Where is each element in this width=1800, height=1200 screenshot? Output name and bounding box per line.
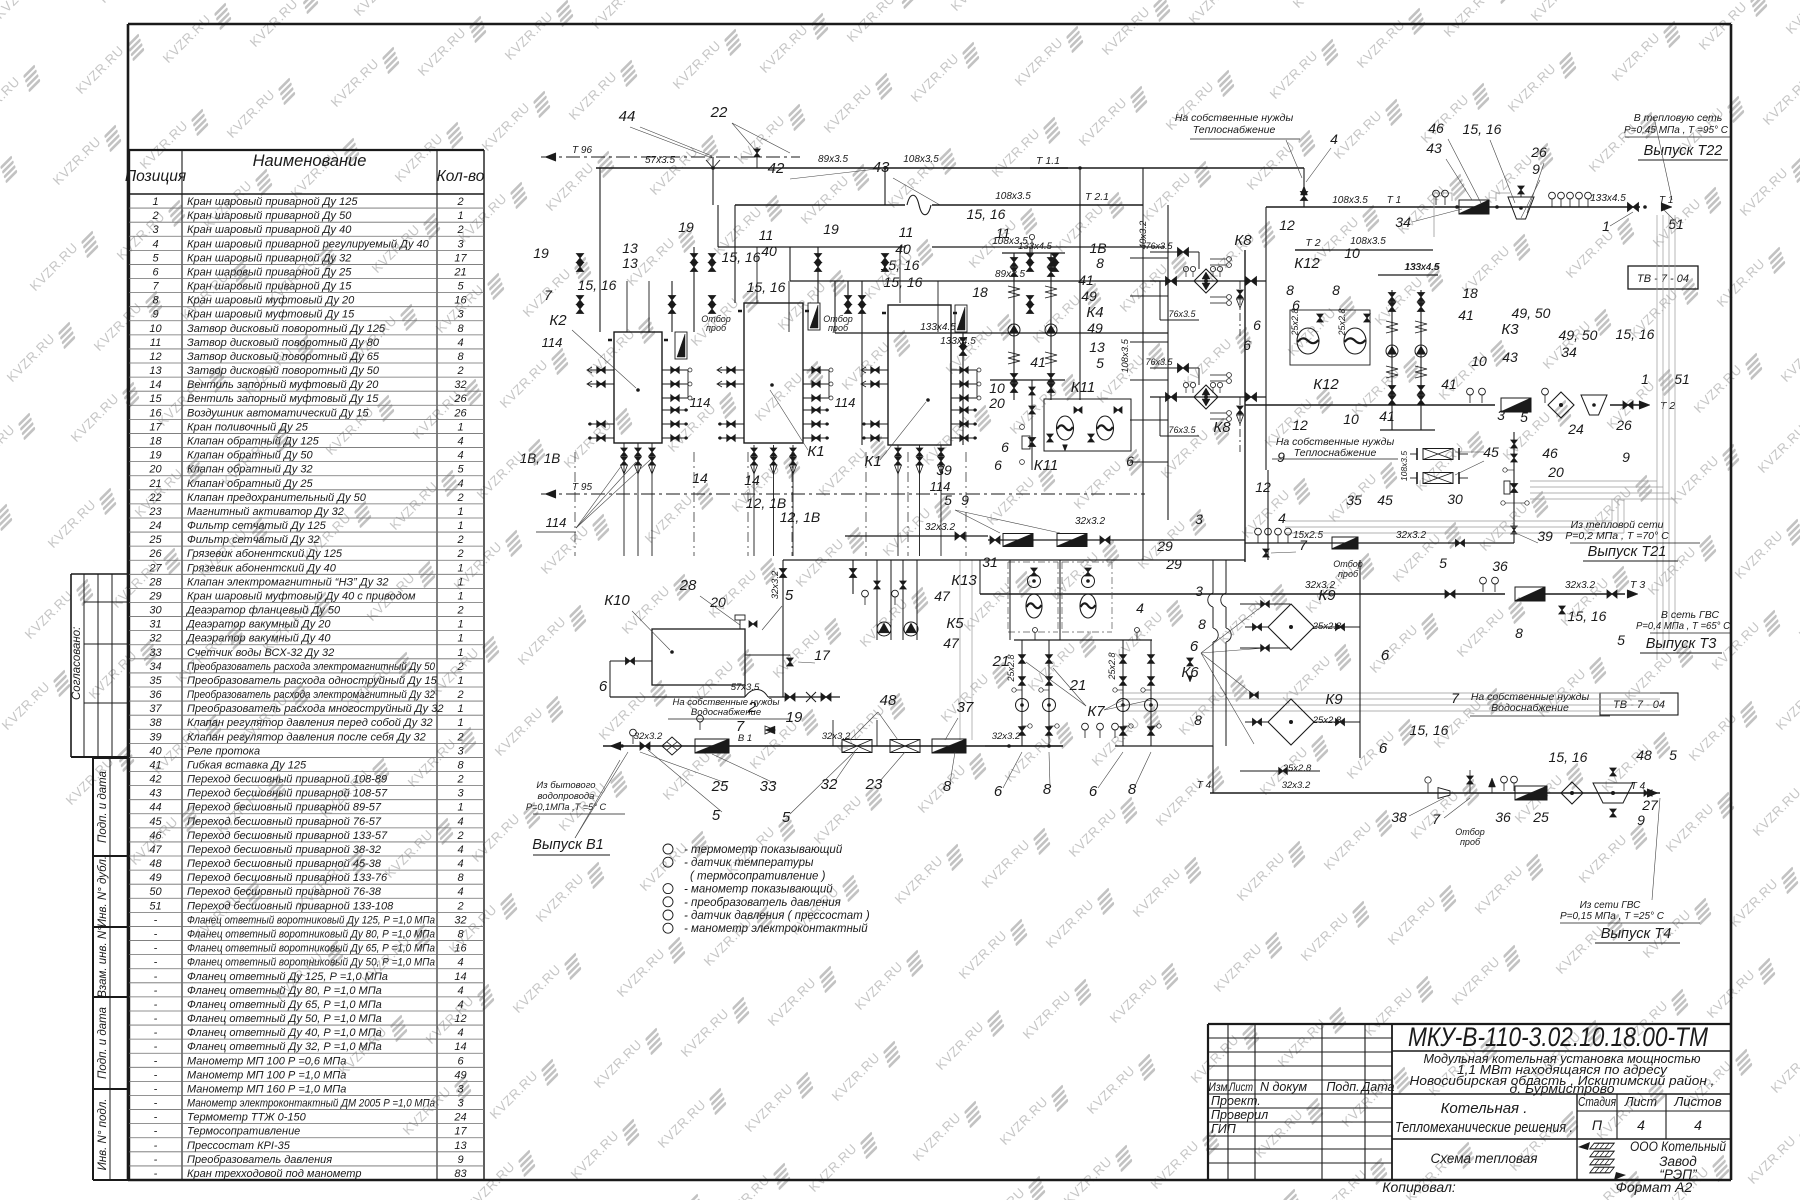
svg-text:8: 8 [457,872,464,884]
svg-text:43: 43 [873,159,890,176]
svg-text:проб: проб [828,323,849,333]
svg-text:1: 1 [457,421,463,433]
svg-text:8: 8 [1096,255,1104,271]
svg-text:- манометр электроконтактный: - манометр электроконтактный [684,923,868,935]
svg-text:К8: К8 [1234,232,1252,249]
svg-text:40: 40 [895,241,911,257]
svg-text:Клапан регулятор давления пере: Клапан регулятор давления перед собой Ду… [187,717,433,729]
svg-text:76х3.5: 76х3.5 [1145,241,1173,251]
svg-text:10: 10 [1344,245,1360,261]
svg-text:41: 41 [1441,376,1457,392]
svg-text:5: 5 [1439,555,1447,571]
svg-text:29: 29 [1165,556,1182,572]
svg-text:15, 16: 15, 16 [747,279,786,295]
svg-text:7: 7 [1432,811,1441,827]
svg-text:-: - [154,1013,158,1025]
svg-text:89х3.5: 89х3.5 [995,269,1025,280]
svg-text:15, 16: 15, 16 [722,249,761,265]
svg-text:1: 1 [457,717,463,729]
svg-text:4: 4 [457,844,463,856]
svg-text:6: 6 [1253,317,1261,333]
svg-text:19: 19 [823,221,839,237]
svg-text:Клапан предохранительный Ду 50: Клапан предохранительный Ду 50 [187,492,367,504]
svg-text:40: 40 [149,745,162,757]
svg-text:26: 26 [148,548,162,560]
svg-text:4: 4 [457,999,463,1011]
svg-text:4: 4 [457,450,463,462]
svg-text:26: 26 [1530,144,1547,160]
svg-text:9: 9 [1637,812,1645,828]
svg-text:76х3.5: 76х3.5 [1145,357,1173,367]
svg-text:14: 14 [149,379,161,391]
svg-text:Кран шаровый приварной Ду 32: Кран шаровый приварной Ду 32 [187,252,351,264]
svg-text:Инв. N° дубл.: Инв. N° дубл. [97,856,109,927]
svg-text:8: 8 [1515,625,1523,641]
svg-text:Подп.: Подп. [1326,1080,1359,1094]
svg-text:4: 4 [1136,600,1144,616]
svg-text:26: 26 [453,407,467,419]
svg-text:44: 44 [619,108,636,125]
svg-text:Выпуск Т21: Выпуск Т21 [1588,544,1667,560]
svg-text:Дата: Дата [1360,1080,1395,1094]
svg-text:Т 2: Т 2 [1305,237,1320,249]
svg-text:Взам. инв. N°: Взам. инв. N° [97,926,109,998]
svg-text:30: 30 [149,605,162,617]
svg-text:13: 13 [622,240,638,256]
svg-text:Затвор дисковый поворотный Ду: Затвор дисковый поворотный Ду 125 [187,323,386,335]
svg-text:133х4.5: 133х4.5 [1404,262,1440,273]
svg-text:4: 4 [457,337,463,349]
svg-text:-: - [154,1168,158,1180]
svg-text:41: 41 [1078,272,1094,288]
svg-text:32х3.2: 32х3.2 [634,731,663,742]
svg-text:К11: К11 [1034,457,1058,474]
svg-text:8: 8 [1194,712,1202,728]
svg-text:2: 2 [456,900,463,912]
svg-text:Вентиль запорный муфтовый Ду: Вентиль запорный муфтовый Ду 15 [187,393,379,405]
svg-text:14: 14 [454,1041,466,1053]
svg-text:3: 3 [457,745,464,757]
svg-text:3: 3 [1195,583,1203,599]
svg-text:К2: К2 [624,345,625,346]
svg-text:Затвор дисковый поворотный Ду: Затвор дисковый поворотный Ду 65 [187,351,380,363]
svg-text:25х2.8: 25х2.8 [1107,652,1117,680]
svg-text:Отбор: Отбор [1455,827,1485,837]
svg-text:Преобразователь расхода многос: Преобразователь расхода многоструйный Ду… [187,703,443,715]
svg-text:8: 8 [457,759,464,771]
svg-text:Прессостат КРI-35: Прессостат КРI-35 [187,1140,291,1152]
svg-text:( термосопративление ): ( термосопративление ) [690,870,826,882]
svg-text:83: 83 [454,1168,467,1180]
svg-text:-: - [154,1027,158,1039]
svg-text:27: 27 [148,562,162,574]
svg-text:108х3.5: 108х3.5 [1332,195,1368,206]
svg-text:2: 2 [456,196,463,208]
svg-text:36: 36 [149,689,162,701]
svg-text:-: - [154,1055,158,1067]
svg-text:15, 16: 15, 16 [884,274,923,290]
svg-text:48: 48 [1636,747,1652,763]
svg-text:Фланец ответный Ду 80, Р =1,0: Фланец ответный Ду 80, Р =1,0 МПа [187,985,382,997]
svg-text:15, 16: 15, 16 [578,277,617,293]
svg-text:6: 6 [457,1055,464,1067]
svg-text:Т 1.1: Т 1.1 [1036,155,1060,167]
svg-text:4: 4 [457,957,463,969]
svg-text:8: 8 [457,323,464,335]
svg-text:Кран шаровый приварной Ду 50: Кран шаровый приварной Ду 50 [187,210,352,222]
svg-text:Из сети ГВС: Из сети ГВС [1580,900,1642,911]
svg-text:1: 1 [457,802,463,814]
svg-text:К1: К1 [807,443,824,460]
svg-text:43: 43 [149,788,162,800]
svg-text:47: 47 [943,635,960,651]
svg-text:13: 13 [149,365,162,377]
svg-text:47: 47 [149,844,162,856]
svg-text:133х4.5: 133х4.5 [1590,193,1626,204]
svg-text:25: 25 [1532,809,1549,825]
svg-text:15, 16: 15, 16 [1549,749,1588,765]
svg-text:21: 21 [148,478,161,490]
svg-text:Переход бесшовный приварной 4: Переход бесшовный приварной 45-38 [187,858,382,870]
svg-text:48: 48 [880,692,897,709]
svg-text:Подп. и дата: Подп. и дата [97,1007,109,1079]
svg-text:Фланец ответный Ду 32, Р =1,0: Фланец ответный Ду 32, Р =1,0 МПа [187,1041,382,1053]
svg-text:Лист: Лист [1228,1082,1253,1094]
svg-text:32х3.2: 32х3.2 [1565,580,1595,591]
svg-text:Манометр МП 100 Р =1,0 МПа: Манометр МП 100 Р =1,0 МПа [187,1069,346,1081]
svg-text:Формат А2: Формат А2 [1616,1179,1693,1195]
svg-text:Листов: Листов [1673,1094,1722,1109]
svg-text:26: 26 [453,393,467,405]
svg-text:- преобразователь давления: - преобразователь давления [684,897,841,909]
svg-text:41: 41 [1458,307,1474,323]
svg-text:-: - [154,985,158,997]
svg-text:10: 10 [989,380,1005,396]
svg-text:1: 1 [457,506,463,518]
svg-text:3: 3 [457,1098,464,1110]
svg-text:Манометр МП 100 Р =0,6 МПа: Манометр МП 100 Р =0,6 МПа [187,1055,346,1067]
svg-text:Водоснабжение: Водоснабжение [1491,702,1569,714]
svg-text:Преобразователь давления: Преобразователь давления [187,1154,332,1166]
svg-text:11: 11 [996,225,1011,241]
svg-text:18: 18 [1462,285,1478,301]
svg-text:5: 5 [1617,632,1625,648]
svg-text:3: 3 [457,238,464,250]
svg-text:N докум: N докум [1260,1080,1308,1094]
svg-text:Грязевик абонентский Ду 125: Грязевик абонентский Ду 125 [187,548,343,560]
svg-text:5: 5 [152,252,159,264]
svg-text:К2: К2 [549,312,567,329]
svg-text:Т 4: Т 4 [1197,780,1212,791]
svg-text:К3: К3 [1501,321,1519,338]
svg-text:В 1: В 1 [738,733,752,744]
svg-text:21: 21 [453,266,466,278]
svg-text:Кран трехходовой под манометр: Кран трехходовой под манометр [187,1168,361,1180]
svg-text:24: 24 [453,1112,466,1124]
svg-text:42: 42 [149,774,161,786]
svg-text:-: - [154,1083,158,1095]
svg-text:4: 4 [1637,1117,1645,1133]
svg-text:-: - [154,971,158,983]
svg-text:Переход бесшовный приварной 1: Переход бесшовный приварной 133-108 [187,900,394,912]
svg-text:4: 4 [457,478,463,490]
svg-text:К10: К10 [604,592,630,609]
svg-text:2: 2 [456,731,463,743]
svg-text:Фланец ответный воротниковый Д: Фланец ответный воротниковый Ду 80, Р =1… [187,929,435,941]
svg-text:15х2.5: 15х2.5 [1293,530,1323,541]
svg-text:9: 9 [1277,449,1285,465]
svg-text:4: 4 [457,436,463,448]
svg-text:89х3.5: 89х3.5 [818,154,848,165]
svg-text:5: 5 [944,492,952,508]
svg-text:1: 1 [1641,371,1649,387]
svg-text:2: 2 [456,830,463,842]
svg-text:Переход бесшовный приварной 1: Переход бесшовный приварной 133-57 [187,830,388,842]
svg-text:49: 49 [1087,320,1103,336]
svg-text:водопровода: водопровода [538,791,595,802]
svg-text:12, 1В: 12, 1В [780,509,820,525]
svg-text:6: 6 [1379,740,1388,757]
svg-text:2: 2 [456,689,463,701]
svg-text:37: 37 [149,703,162,715]
svg-text:49, 50: 49, 50 [1512,305,1551,321]
svg-text:11: 11 [759,227,774,243]
svg-text:8: 8 [1043,781,1052,798]
svg-text:23: 23 [148,506,162,518]
svg-text:5: 5 [457,281,464,293]
svg-text:6: 6 [1381,647,1390,664]
svg-text:32х3.2: 32х3.2 [1396,530,1426,541]
svg-text:4: 4 [152,238,158,250]
svg-text:4: 4 [457,985,463,997]
svg-text:17: 17 [454,1126,467,1138]
svg-text:Выпуск В1: Выпуск В1 [532,837,603,853]
svg-text:76х3.5: 76х3.5 [1168,425,1196,435]
svg-text:Термометр ТТЖ 0-150: Термометр ТТЖ 0-150 [187,1112,307,1124]
svg-text:Фланец ответный воротниковый Д: Фланец ответный воротниковый Ду 65, Р =1… [187,943,435,955]
svg-text:49: 49 [454,1069,466,1081]
svg-text:30: 30 [1447,491,1463,507]
svg-text:6: 6 [994,783,1003,800]
svg-text:16: 16 [454,295,467,307]
svg-text:2: 2 [456,605,463,617]
svg-text:-: - [154,957,158,969]
svg-text:Переход бесшовный приварной 1: Переход бесшовный приварной 108-89 [187,774,387,786]
svg-text:-: - [154,1069,158,1081]
svg-text:5: 5 [782,809,791,826]
svg-text:Согласовано:: Согласовано: [71,627,83,700]
svg-text:-: - [154,1140,158,1152]
svg-text:Котельная .: Котельная . [1441,1100,1528,1117]
svg-text:19: 19 [533,245,549,261]
svg-text:Фланец ответный воротниковый Д: Фланец ответный воротниковый Ду 125, Р =… [187,914,435,926]
svg-text:6: 6 [599,678,608,695]
svg-text:Изм: Изм [1209,1082,1228,1094]
svg-text:Клапан регулятор давления посл: Клапан регулятор давления после себя Ду … [187,731,426,743]
svg-text:Т 4: Т 4 [1631,781,1646,792]
svg-text:18: 18 [149,436,162,448]
svg-text:-: - [154,914,158,926]
svg-text:Кран шаровый муфтовый Ду 15: Кран шаровый муфтовый Ду 15 [187,309,355,321]
svg-text:К1: К1 [864,453,881,470]
svg-text:12: 12 [1292,417,1308,433]
svg-text:21: 21 [1069,677,1087,694]
svg-text:К12: К12 [1313,376,1339,393]
svg-text:1: 1 [457,647,463,659]
svg-text:48: 48 [149,858,162,870]
svg-text:47: 47 [934,588,951,604]
svg-text:Деаэратор вакумный Ду 20: Деаэратор вакумный Ду 20 [185,619,331,631]
svg-text:9: 9 [1622,449,1630,465]
svg-text:6: 6 [1126,453,1134,469]
svg-text:проб: проб [706,323,727,333]
svg-text:8: 8 [457,929,464,941]
svg-text:Манометр МП 160 Р =1,0 МПа: Манометр МП 160 Р =1,0 МПа [187,1083,346,1095]
svg-text:8: 8 [1332,282,1340,298]
svg-text:1: 1 [457,210,463,222]
svg-text:Схема тепловая: Схема тепловая [1431,1151,1538,1166]
svg-text:Позиция: Позиция [125,168,186,185]
svg-text:29: 29 [1156,538,1173,554]
svg-text:ООО Котельный: ООО Котельный [1630,1139,1726,1154]
svg-text:39: 39 [1537,528,1553,544]
svg-text:1В: 1В [1089,240,1106,256]
svg-text:Вентиль запорный муфтовый Ду: Вентиль запорный муфтовый Ду 20 [187,379,379,391]
svg-text:1: 1 [457,633,463,645]
svg-text:10: 10 [1343,411,1359,427]
svg-text:- датчик давления ( прессост: - датчик давления ( прессостат ) [684,910,870,922]
svg-text:-: - [154,943,158,955]
svg-text:3: 3 [457,1083,464,1095]
svg-text:Т 3: Т 3 [1630,579,1645,591]
svg-text:133х4.5: 133х4.5 [1018,241,1053,252]
svg-text:Фланец ответный воротниковый Д: Фланец ответный воротниковый Ду 50, Р =1… [187,957,435,969]
svg-text:Затвор дисковый поворотный Ду: Затвор дисковый поворотный Ду 80 [187,337,380,349]
svg-text:5: 5 [1520,409,1528,425]
svg-text:22: 22 [710,104,728,121]
svg-text:Т 2.1: Т 2.1 [1085,191,1109,203]
svg-text:1: 1 [152,196,158,208]
svg-text:28: 28 [679,577,697,594]
svg-text:2: 2 [456,534,463,546]
svg-text:Из бытового: Из бытового [536,780,595,791]
svg-text:Р=0,4 МПа , Т =65° С: Р=0,4 МПа , Т =65° С [1636,621,1731,632]
svg-text:П: П [1592,1117,1603,1133]
svg-text:Термосопративление: Термосопративление [187,1126,300,1138]
svg-text:Кран шаровый приварной Ду 25: Кран шаровый приварной Ду 25 [187,266,352,278]
svg-text:3: 3 [152,224,159,236]
svg-text:7: 7 [152,281,159,293]
svg-text:7: 7 [1299,537,1308,553]
svg-text:6: 6 [1089,783,1098,800]
svg-text:20: 20 [988,395,1005,411]
svg-text:4: 4 [1330,131,1338,147]
svg-text:43: 43 [1502,349,1518,365]
svg-text:-: - [154,1112,158,1124]
svg-text:15, 16: 15, 16 [1410,722,1449,738]
svg-text:37: 37 [957,699,974,716]
svg-text:57х3.5: 57х3.5 [645,155,675,166]
svg-text:13: 13 [1089,339,1105,355]
svg-text:К5: К5 [946,615,964,632]
svg-text:32: 32 [454,914,466,926]
svg-text:32: 32 [821,776,838,793]
svg-text:42: 42 [768,160,785,177]
svg-text:5: 5 [1669,747,1677,763]
svg-text:Манометр электроконтактный ДМ: Манометр электроконтактный ДМ 2005 Р =1,… [187,1098,435,1110]
svg-text:6: 6 [1190,638,1199,655]
svg-text:Гибкая вставка Ду 125: Гибкая вставка Ду 125 [187,759,307,771]
svg-text:14: 14 [692,470,708,486]
svg-text:Счетчик воды ВСХ-32 Ду 32: Счетчик воды ВСХ-32 Ду 32 [187,647,334,659]
svg-text:27: 27 [1641,797,1659,813]
svg-text:13: 13 [454,1140,467,1152]
svg-text:К9: К9 [1325,691,1343,708]
svg-text:20: 20 [148,464,162,476]
svg-text:6: 6 [1001,439,1009,455]
svg-text:Фланец ответный Ду 65, Р =1,0: Фланец ответный Ду 65, Р =1,0 МПа [187,999,382,1011]
svg-text:51: 51 [1668,216,1684,232]
svg-text:К13: К13 [951,572,977,589]
svg-text:8: 8 [152,295,159,307]
svg-text:Переход бесшовный приварной 1: Переход бесшовный приварной 108-57 [187,788,388,800]
svg-text:45: 45 [1483,444,1499,460]
svg-text:2: 2 [456,365,463,377]
svg-text:Фильтр сетчатый Ду 125: Фильтр сетчатый Ду 125 [187,520,327,532]
svg-text:- термометр показывающий: - термометр показывающий [684,844,843,856]
svg-text:Т 1: Т 1 [1387,195,1401,206]
svg-text:12: 12 [149,351,161,363]
svg-text:Т 96: Т 96 [572,145,592,156]
svg-text:25х2.8: 25х2.8 [1006,654,1016,682]
svg-text:114: 114 [835,395,856,410]
svg-text:Р=0,2 МПа , Т =70° С: Р=0,2 МПа , Т =70° С [1565,530,1669,542]
svg-text:108х3.5: 108х3.5 [995,191,1031,202]
svg-text:МКУ-В-110-3.02.10.18.00-ТМ: МКУ-В-110-3.02.10.18.00-ТМ [1408,1022,1708,1052]
svg-text:Кран шаровый приварной Ду 15: Кран шаровый приварной Ду 15 [187,281,352,293]
svg-text:- манометр показывающий: - манометр показывающий [684,884,833,896]
svg-text:32х3.2: 32х3.2 [822,731,851,742]
svg-text:Теплоснабжение: Теплоснабжение [1193,124,1276,136]
svg-text:38: 38 [149,717,162,729]
svg-text:6: 6 [994,457,1002,473]
svg-text:28: 28 [148,576,162,588]
svg-text:Стадия: Стадия [1578,1094,1616,1109]
svg-text:32х3.2: 32х3.2 [925,522,955,533]
svg-text:4: 4 [1278,510,1286,526]
svg-text:34: 34 [1561,344,1577,360]
svg-text:43: 43 [1426,140,1442,156]
svg-text:1: 1 [457,675,463,687]
svg-text:Фланец ответный Ду 125, Р =1,: Фланец ответный Ду 125, Р =1,0 МПа [187,971,388,983]
svg-text:3: 3 [1195,511,1203,527]
svg-text:-: - [154,1098,158,1110]
svg-text:1: 1 [457,562,463,574]
svg-text:-: - [154,1041,158,1053]
svg-text:Воздушник автоматический Ду 15: Воздушник автоматический Ду 15 [187,407,369,419]
svg-text:12: 12 [1279,217,1295,233]
svg-text:В сеть ГВС: В сеть ГВС [1661,609,1720,621]
svg-text:3: 3 [1497,407,1505,423]
svg-text:6: 6 [152,266,159,278]
svg-text:33: 33 [149,647,162,659]
svg-text:13: 13 [622,255,638,271]
svg-text:-: - [154,1126,158,1138]
svg-text:3: 3 [457,309,464,321]
svg-text:108х3.5: 108х3.5 [1120,338,1131,373]
svg-text:Деаэратор фланцевый Ду 50: Деаэратор фланцевый Ду 50 [185,605,341,617]
svg-text:114: 114 [542,335,563,350]
